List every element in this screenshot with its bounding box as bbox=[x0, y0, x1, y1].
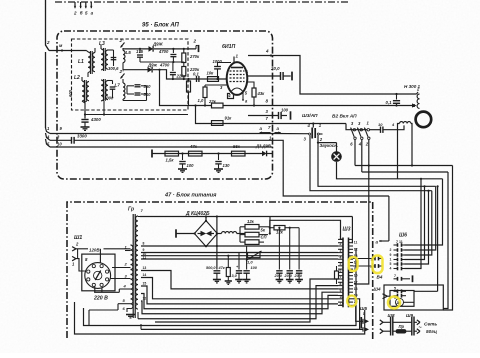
svg-text:10: 10 bbox=[378, 122, 383, 127]
wire diode to output bbox=[154, 48, 196, 50]
capacitor 10 to output transformer bbox=[370, 129, 381, 131]
chassis inner outline bbox=[84, 248, 357, 326]
svg-text:3,0: 3,0 bbox=[232, 274, 238, 278]
wire Sh3 right links to pins 9 8 bbox=[353, 258, 375, 260]
wire Yu1 pin3 down bbox=[310, 135, 432, 191]
transformer Tr secondary winding bbox=[136, 216, 138, 309]
inductor L2 transformer bbox=[82, 81, 85, 101]
switch B2 contacts bbox=[350, 128, 370, 140]
svg-text:17: 17 bbox=[354, 280, 358, 284]
tube pin 1 bbox=[233, 57, 235, 63]
tube pin 4 heater box bbox=[228, 94, 234, 99]
switch contact 2 lower bbox=[121, 74, 125, 79]
wire Sh5 lower pin bbox=[353, 299, 360, 330]
svg-text:Д3 Д9В: Д3 Д9В bbox=[255, 144, 271, 149]
wire drop x437 motor feed bbox=[437, 186, 439, 291]
wire pin 3 long with cap 3300 bbox=[46, 133, 51, 140]
svg-text:9: 9 bbox=[390, 253, 392, 257]
chassis outer outline bbox=[75, 302, 365, 334]
wire mid junction bbox=[140, 61, 184, 63]
transformer secondary tap numbers bbox=[143, 242, 147, 301]
svg-text:20,0: 20,0 bbox=[274, 274, 283, 278]
wire mains links bbox=[393, 321, 412, 323]
svg-text:2: 2 bbox=[46, 40, 50, 45]
wire bus w4 bbox=[141, 258, 338, 260]
svg-text:1,0: 1,0 bbox=[247, 260, 253, 265]
wire AGC line 91k bbox=[196, 106, 347, 124]
wire right drop x442 to Sh6 bbox=[405, 179, 443, 245]
motor box inner bbox=[390, 291, 414, 307]
svg-text:7: 7 bbox=[340, 275, 342, 279]
svg-text:18: 18 bbox=[354, 287, 358, 291]
svg-text:4: 4 bbox=[340, 255, 342, 259]
wire w10 nested bbox=[150, 286, 338, 319]
wire w11 nested bbox=[155, 279, 338, 322]
wire grid line bbox=[188, 78, 227, 80]
capacitor 4300 with ground bbox=[84, 101, 86, 119]
tube grids bbox=[230, 71, 245, 82]
resistor 1,0 cathode bbox=[203, 87, 207, 98]
diode D9Zh upper bbox=[149, 46, 154, 52]
capacitor 175 bbox=[139, 49, 141, 53]
wire row1 to Yu1 bbox=[273, 133, 304, 135]
wire row2 branch a bbox=[273, 140, 389, 196]
wire selector right exit bbox=[111, 278, 131, 280]
wire tap w5 bend bbox=[141, 271, 338, 289]
resistor 5k SP potentiometer bbox=[245, 232, 259, 237]
svg-text:Ш1: Ш1 bbox=[74, 235, 82, 241]
svg-text:Ш3/АП: Ш3/АП bbox=[302, 113, 318, 119]
wire right drop x448 bbox=[443, 172, 448, 309]
svg-text:4: 4 bbox=[390, 267, 392, 271]
wire bridge output riser bbox=[216, 217, 218, 234]
motor box outer bbox=[384, 285, 443, 310]
wire right drop x435 to Sh6 bbox=[405, 186, 436, 250]
wire pin 10 long bbox=[46, 139, 51, 147]
svg-text:10к: 10к bbox=[207, 71, 215, 76]
inductor L3 with trimmer cap bbox=[101, 49, 104, 70]
diode D9Zh lower bbox=[123, 69, 148, 71]
svg-text:Ш3: Ш3 bbox=[343, 227, 351, 233]
svg-text:175: 175 bbox=[136, 49, 144, 54]
capacitor 500,0 filter bbox=[216, 234, 218, 270]
tube pin 3 bbox=[222, 84, 227, 86]
potentiometer arrow bbox=[248, 253, 261, 258]
svg-text:130: 130 bbox=[223, 163, 231, 168]
terminal T left bbox=[151, 150, 153, 158]
svg-text:47 · Блок питания: 47 · Блок питания bbox=[164, 193, 217, 199]
tube anode bar bbox=[231, 67, 243, 69]
svg-text:14: 14 bbox=[143, 273, 147, 277]
capacitor 100 with ground bbox=[181, 152, 183, 154]
wire bus w3 bbox=[141, 255, 338, 257]
svg-text:12: 12 bbox=[354, 247, 358, 251]
primary taps bbox=[125, 250, 131, 252]
motor wires bbox=[404, 301, 415, 303]
wire Sh6 fan row4 bbox=[405, 186, 425, 259]
wire cathode bus y105.5 bbox=[160, 70, 189, 106]
inductor L1 transformer bbox=[88, 52, 91, 72]
svg-text:100: 100 bbox=[281, 108, 289, 113]
svg-text:15: 15 bbox=[143, 282, 147, 286]
wire 120V into selector bbox=[99, 249, 101, 263]
wire long drop x368 bbox=[354, 166, 369, 285]
diode D3 D9V bbox=[262, 151, 267, 157]
svg-text:47к: 47к bbox=[218, 266, 226, 270]
resistor lower box bbox=[245, 240, 259, 245]
capacitor L3 tank bbox=[113, 52, 115, 66]
svg-text:0,1: 0,1 bbox=[193, 72, 199, 77]
wire a line to switch B2 bbox=[354, 129, 367, 131]
svg-text:Ш5: Ш5 bbox=[360, 306, 367, 311]
highlight pins 9 8 yellow bbox=[373, 256, 383, 274]
svg-text:10: 10 bbox=[340, 295, 344, 299]
tube U1 envelope bbox=[227, 62, 248, 95]
wire w8 nested bbox=[141, 294, 338, 309]
speaker Gr bbox=[416, 112, 432, 128]
svg-text:Д9Ж: Д9Ж bbox=[152, 42, 164, 47]
bridge diode symbol bbox=[201, 231, 207, 237]
wire 120V link bbox=[76, 248, 88, 250]
wire lamp down bbox=[337, 162, 443, 179]
svg-text:L5: L5 bbox=[126, 50, 132, 55]
svg-text:510: 510 bbox=[144, 92, 152, 97]
wire choke out junction bbox=[269, 227, 271, 229]
wire Sh6 fan row5 bbox=[405, 191, 429, 264]
wire bridge top to winding bbox=[205, 217, 207, 221]
block border 47 dash-dot bbox=[67, 202, 373, 338]
node arrows top pins bbox=[74, 2, 93, 8]
svg-text:0,1: 0,1 bbox=[386, 100, 393, 105]
capacitor bank electrolytics bbox=[235, 228, 303, 283]
svg-text:12к: 12к bbox=[247, 219, 255, 224]
wire drop x388 to arrow a bbox=[388, 196, 390, 241]
connector Sh4 pins bbox=[394, 290, 398, 292]
svg-text:Д9ж: Д9ж bbox=[147, 63, 158, 68]
svg-text:560: 560 bbox=[144, 84, 152, 89]
resistor 91k bbox=[212, 121, 224, 126]
wire top bus dash-dot bbox=[55, 1, 348, 3]
wire w7 bottom bbox=[141, 286, 338, 304]
resistor 3,0 bleeder bbox=[227, 256, 229, 268]
wire diode2 step to grid line bbox=[153, 70, 188, 79]
wire anode supply to output transformer bbox=[248, 56, 417, 95]
svg-text:L7: L7 bbox=[115, 83, 121, 88]
svg-text:3300: 3300 bbox=[77, 134, 87, 139]
svg-text:1,0: 1,0 bbox=[198, 98, 204, 103]
transformer Tr primary winding bbox=[131, 245, 133, 309]
connector Sh1 pin 2 bbox=[72, 247, 76, 249]
svg-text:10: 10 bbox=[57, 142, 62, 147]
wire w9 nested bbox=[141, 292, 338, 314]
svg-text:95 · Блок АП: 95 · Блок АП bbox=[142, 23, 180, 29]
svg-text:43к: 43к bbox=[257, 91, 266, 96]
svg-text:Сеть: Сеть bbox=[424, 322, 437, 328]
voltage selector plate box bbox=[82, 254, 115, 291]
svg-text:91к: 91к bbox=[225, 116, 233, 121]
svg-text:270к: 270к bbox=[189, 54, 200, 59]
svg-text:2: 2 bbox=[390, 248, 392, 252]
svg-text:11: 11 bbox=[354, 241, 358, 245]
capacitor 4700 lower bbox=[172, 62, 174, 71]
resistor 47k bbox=[189, 151, 203, 156]
svg-text:СП: СП bbox=[261, 235, 268, 240]
wire Sh3 to Sh5 upper bbox=[353, 305, 363, 321]
transformer Tr core bbox=[132, 214, 134, 318]
inductor L7 bbox=[123, 83, 125, 99]
wire tap w6 bend bbox=[141, 278, 338, 299]
highlight motor yellow bbox=[388, 297, 400, 309]
wire band switch bus upper bbox=[123, 48, 149, 50]
svg-text:300,6: 300,6 bbox=[108, 66, 119, 71]
svg-text:8: 8 bbox=[340, 282, 342, 286]
wire pin3 line cap 100 bbox=[248, 115, 279, 117]
wire anode winding to rectifier bbox=[140, 216, 352, 218]
svg-text:100: 100 bbox=[251, 266, 258, 270]
svg-text:4300: 4300 bbox=[90, 117, 101, 122]
connector Sh5 bar bbox=[360, 317, 362, 328]
resistor 1,5k bbox=[165, 151, 179, 156]
wire left vertical trunk bbox=[46, 0, 50, 51]
wire Yu1 pin2 down bbox=[318, 135, 436, 186]
svg-text:4700: 4700 bbox=[159, 63, 170, 68]
wire L7 tank loop bbox=[126, 86, 128, 94]
wire right drop x431 to Sh6 bbox=[405, 191, 432, 255]
svg-text:50гц: 50гц bbox=[426, 329, 437, 335]
svg-text:Ш4: Ш4 bbox=[374, 287, 381, 292]
svg-text:L2: L2 bbox=[74, 75, 80, 81]
svg-text:L3: L3 bbox=[99, 41, 105, 47]
tube pin 5 with arrow a bbox=[242, 92, 244, 96]
node m junction bbox=[61, 49, 63, 51]
resistor 12k second bbox=[274, 226, 285, 230]
svg-text:220к: 220к bbox=[176, 74, 187, 79]
svg-text:13: 13 bbox=[143, 266, 147, 270]
svg-text:L1: L1 bbox=[78, 59, 84, 65]
svg-text:4700: 4700 bbox=[158, 49, 169, 54]
connector Sh1 pin 1 bbox=[72, 256, 76, 258]
primary tap 6 ground bbox=[127, 309, 131, 313]
svg-text:2°: 2° bbox=[119, 38, 125, 43]
svg-text:500,0: 500,0 bbox=[206, 266, 216, 270]
terminal rectifier input bbox=[175, 229, 177, 237]
lamp L1 dial bbox=[318, 142, 337, 144]
motor Dv bbox=[396, 298, 404, 306]
inductor L4 with cap bbox=[101, 80, 104, 101]
stabilizer sub-box corner bbox=[270, 220, 343, 239]
input circuit dashed box bbox=[72, 39, 189, 110]
svg-text:5: 5 bbox=[340, 262, 342, 266]
wire Sh3 top right riser bbox=[351, 217, 354, 243]
resistor near Sh3 bbox=[335, 271, 339, 279]
switch contact 2 upper bbox=[121, 43, 125, 48]
capacitor 4700 upper bbox=[172, 49, 174, 53]
svg-text:3: 3 bbox=[340, 249, 342, 253]
svg-text:7: 7 bbox=[394, 274, 396, 278]
svg-text:~: ~ bbox=[419, 325, 422, 331]
highlight Sh3 pins yellow bbox=[349, 257, 358, 271]
wire L5 down trunk bbox=[122, 48, 124, 51]
choke filter coil bbox=[217, 233, 221, 235]
wire bus w2 bbox=[141, 252, 338, 254]
wire Sh1 pin1 to selector bbox=[76, 259, 85, 271]
svg-text:8: 8 bbox=[143, 242, 145, 246]
wire Sh6 fan row6 bbox=[405, 179, 422, 269]
highlight Sh3 lower yellow bbox=[347, 296, 356, 307]
svg-text:1,5к: 1,5к bbox=[166, 158, 175, 163]
voltage selector rotary bbox=[85, 263, 111, 289]
block border 95 Blok AP dash-dot bbox=[57, 31, 273, 179]
svg-text:Ш6: Ш6 bbox=[399, 233, 407, 239]
svg-text:20,0: 20,0 bbox=[284, 274, 293, 278]
wire pin 9 long bbox=[46, 128, 51, 134]
svg-text:5: 5 bbox=[390, 262, 392, 266]
svg-text:7 11: 7 11 bbox=[396, 240, 403, 244]
wire interchange y165 bbox=[355, 165, 453, 167]
resistor 270k bbox=[182, 53, 186, 63]
svg-text:20,0: 20,0 bbox=[294, 274, 303, 278]
svg-text:Гр: Гр bbox=[128, 207, 134, 213]
wire right drop x452 bbox=[443, 166, 452, 311]
svg-text:2: 2 bbox=[193, 39, 197, 44]
node a 7 a bidirectional arrows bbox=[260, 132, 271, 134]
svg-text:6: 6 bbox=[340, 269, 342, 273]
resistor 56k bbox=[232, 151, 246, 156]
transformer T2 primary bbox=[417, 92, 419, 94]
svg-text:100: 100 bbox=[187, 163, 195, 168]
svg-text:21: 21 bbox=[340, 302, 344, 306]
svg-text:2: 2 bbox=[73, 11, 77, 16]
svg-text:Пр: Пр bbox=[399, 324, 405, 329]
capacitor 130 with ground bbox=[217, 152, 219, 154]
wire bridge bottom bbox=[205, 245, 207, 247]
wire bus w1 bbox=[141, 245, 338, 247]
capacitor 560 bbox=[127, 85, 134, 87]
svg-text:2: 2 bbox=[340, 242, 342, 246]
connector Sh4 pin arrow bbox=[383, 294, 388, 296]
svg-text:1: 1 bbox=[390, 258, 392, 262]
connector pins highlighted 9 8 bbox=[374, 257, 376, 261]
tube cathode arc bbox=[232, 88, 243, 91]
svg-text:16: 16 bbox=[354, 274, 358, 278]
svg-text:Звукосн.: Звукосн. bbox=[320, 143, 339, 148]
wire selector bottom network bbox=[94, 287, 96, 293]
svg-text:1: 1 bbox=[363, 312, 365, 316]
svg-text:5: 5 bbox=[394, 286, 396, 290]
wire interchange y172 bbox=[362, 171, 448, 173]
svg-text:6И1П: 6И1П bbox=[222, 44, 236, 50]
svg-text:В2 Вкл АП: В2 Вкл АП bbox=[332, 114, 357, 120]
wire switch pole drops bbox=[354, 140, 356, 166]
connector Sh6 pin numbers bbox=[390, 248, 392, 271]
svg-text:б: б bbox=[80, 10, 83, 16]
transformer T2 secondary bbox=[400, 122, 411, 124]
capacitor 510 bbox=[127, 93, 134, 95]
svg-text:220 В: 220 В bbox=[93, 296, 108, 302]
wire L4 bottom bus bbox=[85, 114, 188, 116]
svg-text:4: 4 bbox=[265, 49, 269, 54]
wire node m to L1 bbox=[49, 50, 87, 52]
connector Yu1 phono jack bbox=[312, 124, 314, 128]
connector pin 7 with terminal bbox=[394, 278, 398, 280]
svg-text:20,0: 20,0 bbox=[270, 66, 280, 71]
wire w12 to Sh5 bbox=[141, 328, 363, 330]
svg-text:9: 9 bbox=[340, 288, 342, 292]
wire AVC internal line bbox=[152, 153, 262, 155]
svg-text:120В: 120В bbox=[89, 248, 100, 253]
resistor 43k bbox=[247, 82, 254, 88]
resistor 220k right bbox=[182, 67, 186, 77]
svg-text:В4: В4 bbox=[377, 275, 383, 280]
node arrow a left bbox=[379, 240, 389, 242]
svg-text:600: 600 bbox=[68, 89, 73, 97]
inductor L5 bbox=[123, 51, 125, 63]
wire stab left riser bbox=[239, 227, 241, 242]
